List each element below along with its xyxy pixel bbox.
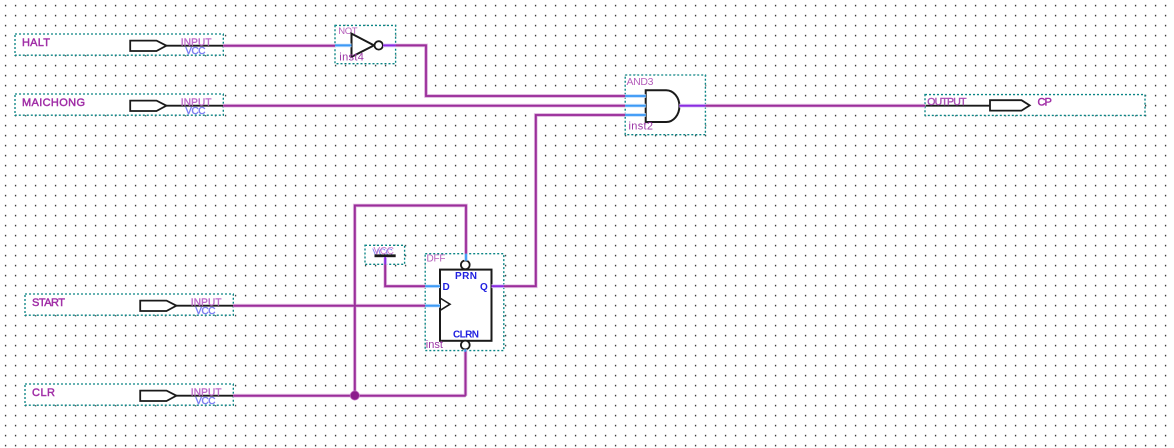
wire CLR branch to PRN	[355, 206, 466, 396]
triangle body	[352, 34, 375, 57]
NOT output stub	[383, 44, 396, 46]
wire HALT to NOT input	[223, 45, 335, 47]
DFF clock input stub	[425, 305, 440, 307]
pin arrow symbol	[140, 301, 176, 311]
svg-text:inst2: inst2	[629, 120, 654, 132]
wire NOT output to AND3 input 1 (halo)	[396, 45, 626, 96]
wire START to DFF clock (halo)	[233, 304, 425, 308]
AND3 gate inst2	[625, 75, 705, 135]
svg-text:D: D	[443, 282, 450, 293]
svg-text:CP: CP	[1038, 97, 1052, 109]
wire DFF Q to AND3 input 3 (soft edge)	[504, 115, 625, 286]
body rectangle	[440, 270, 492, 341]
DFF Q stub	[492, 285, 504, 287]
NOT gate inst4	[335, 25, 396, 63]
input pin CLR	[25, 384, 233, 407]
wire CLR branch to PRN (halo)	[355, 206, 466, 396]
inversion bubble	[375, 41, 383, 49]
wire CLR branch to CLRN (soft edge)	[464, 351, 467, 396]
pin stub line	[130, 45, 223, 47]
svg-text:VCC: VCC	[185, 106, 205, 117]
DFF PRN stub	[465, 254, 467, 261]
wire START to DFF clock (soft edge)	[233, 304, 425, 307]
NOT input stub (halo)	[335, 44, 352, 48]
AND3 output stub (halo)	[679, 104, 705, 108]
AND3 input stub 3	[625, 114, 646, 116]
svg-text:PRN: PRN	[455, 271, 477, 282]
DFF inst	[425, 254, 504, 352]
wire CLR horizontal	[233, 395, 465, 397]
svg-text:VCC: VCC	[185, 46, 205, 57]
svg-text:DFF: DFF	[427, 254, 446, 265]
svg-text:Q: Q	[480, 282, 488, 293]
VCC stub (soft edge)	[384, 257, 387, 264]
wire CLR horizontal (soft edge)	[233, 394, 465, 397]
output pin CP	[925, 95, 1145, 116]
wire CLR horizontal (halo)	[233, 394, 465, 398]
wire VCC to DFF D (halo)	[385, 264, 425, 286]
pin stub line	[140, 305, 233, 307]
wire HALT to NOT input (halo)	[223, 44, 335, 48]
DFF PRN stub (halo)	[464, 254, 468, 261]
AND3 input stub 2 (soft edge)	[625, 104, 646, 107]
pin arrow symbol	[130, 41, 166, 51]
NOT input stub	[335, 44, 352, 46]
DFF PRN stub (soft edge)	[465, 254, 468, 261]
DFF D input stub	[425, 285, 440, 287]
CLRN bubble	[461, 341, 470, 350]
DFF CLRN stub (soft edge)	[464, 349, 467, 351]
svg-text:CLR: CLR	[32, 387, 55, 399]
NOT input stub (soft edge)	[335, 44, 352, 47]
input pin START	[25, 294, 233, 317]
AND3 input stub 3 (soft edge)	[625, 114, 646, 117]
input pin HALT	[15, 34, 223, 57]
DFF D input stub (soft edge)	[425, 285, 440, 288]
AND3 output stub	[679, 105, 705, 107]
svg-text:MAICHONG: MAICHONG	[22, 97, 85, 109]
svg-text:HALT: HALT	[22, 37, 50, 49]
AND3 input stub 1	[625, 95, 646, 97]
wire VCC to DFF D (soft edge)	[385, 264, 425, 286]
wire AND3 output to pin CP	[705, 105, 925, 107]
wire CLR branch to PRN (soft edge)	[355, 206, 466, 396]
DFF clock input stub (soft edge)	[425, 304, 440, 307]
clock triangle	[440, 298, 450, 310]
wire CLR branch to CLRN	[465, 351, 467, 396]
svg-text:inst4: inst4	[339, 51, 364, 63]
svg-text:VCC: VCC	[195, 396, 215, 407]
VCC stub (halo)	[383, 257, 387, 264]
wire CLR branch to CLRN (halo)	[464, 351, 468, 396]
DFF CLRN stub	[464, 349, 466, 351]
AND3 input stub 3 (halo)	[625, 113, 646, 117]
wire NOT output to AND3 input 1 (soft edge)	[396, 45, 626, 96]
pin arrow symbol	[140, 391, 176, 401]
wire VCC to DFF D	[385, 264, 425, 286]
svg-text:OUTPUT: OUTPUT	[927, 96, 967, 108]
AND3 input stub 2	[625, 105, 646, 107]
NOT output stub (halo)	[383, 44, 396, 48]
AND3 input stub 2 (halo)	[625, 104, 646, 108]
junction dot on CLR net	[350, 391, 360, 401]
NOT output stub (soft edge)	[383, 44, 396, 47]
AND3 input stub 1 (soft edge)	[625, 95, 646, 98]
wire HALT to NOT input (soft edge)	[223, 44, 335, 47]
wire NOT output to AND3 input 1	[396, 45, 626, 96]
pin stub line	[130, 105, 223, 107]
power bar	[375, 254, 396, 257]
VCC stub	[384, 257, 386, 264]
VCC power symbol	[365, 245, 405, 264]
DFF clock input stub (halo)	[425, 304, 440, 308]
input pin MAICHONG	[15, 94, 223, 117]
DFF Q stub (halo)	[492, 284, 504, 288]
wire AND3 output to pin CP (halo)	[705, 104, 925, 108]
pin stub line	[140, 395, 233, 397]
wire AND3 output to pin CP (soft edge)	[705, 104, 925, 107]
svg-text:AND3: AND3	[627, 76, 654, 88]
AND3 output stub (soft edge)	[679, 104, 705, 107]
svg-text:CLRN: CLRN	[453, 330, 479, 341]
DFF D input stub (halo)	[425, 284, 440, 288]
wire MAICHONG to AND3 input 2 (soft edge)	[223, 104, 625, 107]
wire START to DFF clock	[233, 305, 425, 307]
wire DFF Q to AND3 input 3 (halo)	[504, 115, 625, 286]
pin stub line	[926, 105, 991, 107]
wire MAICHONG to AND3 input 2	[223, 105, 625, 107]
svg-text:inst: inst	[426, 339, 443, 351]
AND3 input stub 1 (halo)	[625, 94, 646, 98]
PRN bubble	[461, 261, 470, 270]
AND gate body	[646, 90, 680, 122]
wire MAICHONG to AND3 input 2 (halo)	[223, 104, 625, 108]
wire DFF Q to AND3 input 3	[504, 115, 625, 286]
pin arrow symbol	[130, 101, 166, 111]
svg-text:VCC: VCC	[195, 306, 215, 317]
DFF CLRN stub (halo)	[463, 349, 467, 351]
svg-text:START: START	[32, 297, 65, 309]
DFF Q stub (soft edge)	[492, 285, 504, 288]
pin arrow symbol	[990, 100, 1030, 110]
